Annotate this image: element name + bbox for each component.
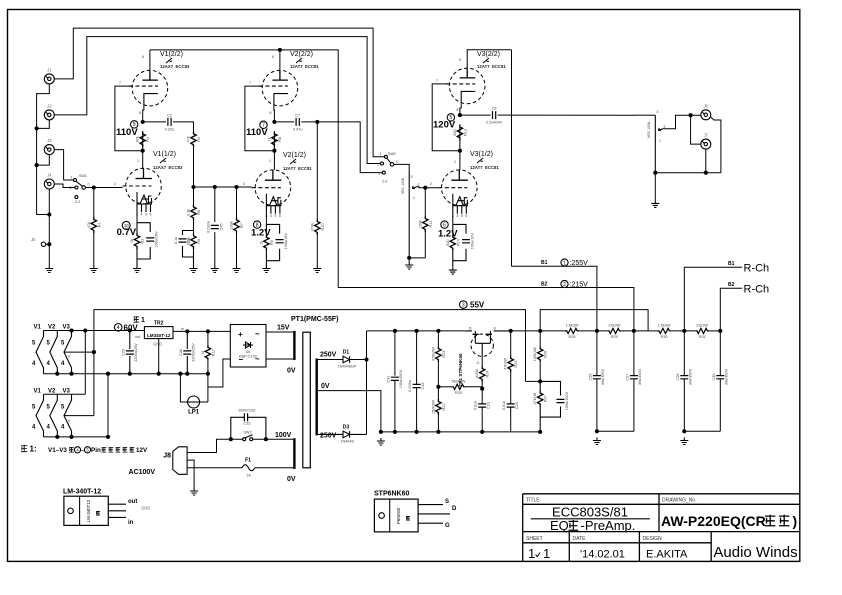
wire V1 upper grid pin7 loop bbox=[115, 86, 143, 151]
junction bus / J4 column bbox=[47, 212, 51, 216]
svg-text:J2: J2 bbox=[47, 103, 52, 108]
svg-text:1: 1 bbox=[563, 260, 566, 266]
svg-text:100k: 100k bbox=[230, 221, 234, 229]
bridge rectifier D4 KBP-C102 bbox=[230, 325, 266, 368]
svg-text:470k2W: 470k2W bbox=[431, 347, 435, 361]
wire V1 cathode to node bbox=[143, 105, 144, 122]
svg-text:E.AKITA: E.AKITA bbox=[646, 549, 688, 561]
svg-text:2200u/25V: 2200u/25V bbox=[192, 343, 196, 362]
capacitor C29b 39u/350V bbox=[712, 368, 729, 385]
filter row right bank bbox=[648, 330, 657, 332]
kanji den bbox=[116, 447, 121, 452]
wire R26 bottom bbox=[539, 362, 541, 381]
input jack J4 bbox=[44, 173, 54, 190]
junction C31 bottom bbox=[393, 430, 397, 434]
wire V3 cathode leg bbox=[452, 214, 454, 225]
svg-text:LM-340T12: LM-340T12 bbox=[86, 499, 91, 522]
circled 4 60V bbox=[114, 324, 122, 332]
svg-text:8: 8 bbox=[139, 111, 141, 115]
svg-text:R8: R8 bbox=[278, 137, 282, 142]
junction C29 bottom bbox=[128, 372, 132, 376]
svg-text:D3: D3 bbox=[343, 425, 350, 431]
output jack J7 bbox=[701, 133, 711, 150]
svg-text:V1: V1 bbox=[34, 325, 42, 331]
junction C7 out bbox=[315, 120, 319, 124]
wire R1 column bbox=[93, 188, 95, 266]
connector J8 bbox=[129, 447, 188, 476]
wire fuse to winding 0V bbox=[255, 467, 295, 469]
svg-text:+: + bbox=[238, 330, 243, 339]
svg-text:C30: C30 bbox=[712, 374, 716, 381]
junction TR2 gnd bbox=[157, 372, 161, 376]
capacitor C30 2200u/25V bbox=[179, 331, 196, 373]
filter row R28-R29 bbox=[579, 330, 607, 332]
wire C45 to ground bbox=[214, 232, 216, 266]
junction C33 top bbox=[415, 329, 419, 333]
wire block1 to block2 bottom bbox=[107, 374, 109, 437]
resistor R2 1k cathode stage1 bbox=[130, 233, 145, 249]
wire R3 to V1 lower plate bbox=[142, 131, 144, 168]
circled 4 note bbox=[74, 447, 80, 453]
wire C7 to junction bbox=[301, 121, 317, 123]
junction filter node B2R bbox=[718, 329, 722, 333]
wire C27 column bbox=[633, 331, 635, 431]
switch SW2 pole 0 bbox=[390, 163, 394, 167]
junction V3 lower plate / pin7 loop bbox=[458, 149, 462, 153]
kanji fu title bbox=[569, 520, 579, 531]
regulator TR2 LM340T-12 box bbox=[135, 321, 184, 347]
junction heater V3 bottom b2 bbox=[69, 435, 73, 439]
wire gate resistor left bbox=[438, 386, 451, 388]
junction filter node B1R bbox=[682, 329, 686, 333]
wire J8 pin3 to fuse bbox=[187, 467, 242, 469]
svg-text:4: 4 bbox=[270, 214, 272, 218]
svg-text:0.033u: 0.033u bbox=[206, 221, 210, 233]
svg-text:in: in bbox=[181, 327, 184, 331]
wire VR1 bottom to ground bbox=[408, 258, 410, 262]
wire V3 plate to rail bbox=[467, 50, 511, 68]
svg-text:C45: C45 bbox=[219, 224, 223, 231]
wire C28 column bbox=[683, 331, 685, 431]
lamp LP1 bbox=[186, 396, 201, 416]
fuse F1 1A bbox=[242, 458, 255, 478]
filter row R29-out bbox=[621, 330, 648, 332]
svg-text:100u/450V: 100u/450V bbox=[399, 369, 403, 388]
svg-text:J7: J7 bbox=[704, 133, 709, 138]
svg-text:250V: 250V bbox=[320, 433, 337, 440]
capacitor C23 0.01u bbox=[474, 401, 491, 411]
svg-text:'14.02.01: '14.02.01 bbox=[580, 549, 625, 561]
wire C26 column bbox=[596, 331, 598, 431]
HV bottom rail bbox=[381, 431, 540, 433]
svg-text:R25: R25 bbox=[514, 361, 518, 368]
wire J2 signal to SW2 contact 2 bbox=[54, 37, 380, 164]
resistor R4 47k bbox=[187, 131, 202, 147]
kanji no 2 bbox=[109, 447, 114, 452]
junction VR2 bottom bbox=[653, 171, 657, 175]
svg-text:R26: R26 bbox=[544, 351, 548, 358]
svg-text:6: 6 bbox=[142, 55, 144, 59]
wire VR1 wiper to V3 grid bbox=[417, 187, 439, 188]
wire gate column bbox=[481, 356, 483, 432]
ground HV center tap bbox=[377, 438, 385, 445]
wire R10 to ground bbox=[316, 235, 318, 266]
svg-text:C7: C7 bbox=[295, 113, 300, 117]
resistor R26 100k1W bbox=[533, 346, 548, 362]
svg-text:100u/16V: 100u/16V bbox=[471, 233, 475, 250]
svg-text:R10: R10 bbox=[321, 224, 325, 231]
wire J2 shield jog bbox=[37, 120, 50, 128]
svg-text:2: 2 bbox=[563, 282, 566, 288]
junction 55V divider node bbox=[538, 379, 542, 383]
svg-text:10: 10 bbox=[124, 223, 129, 228]
wire gate resistor right bbox=[466, 386, 483, 388]
ground filter left pair bbox=[593, 438, 601, 445]
triode V1(1/2) lower bbox=[123, 168, 162, 216]
kanji hyo bbox=[765, 515, 775, 527]
svg-text:C29: C29 bbox=[122, 349, 126, 356]
svg-text:SW2: SW2 bbox=[243, 431, 251, 435]
circled 10 bbox=[122, 221, 130, 229]
junction 0V bottom rail bbox=[379, 430, 383, 434]
svg-text:5: 5 bbox=[279, 214, 281, 218]
svg-text:S: S bbox=[445, 499, 449, 505]
svg-text:2: 2 bbox=[114, 182, 116, 186]
potentiometer VR2 100k bbox=[647, 110, 666, 173]
capacitor C26 39u/350V bbox=[589, 368, 606, 385]
svg-text:VR2 100k: VR2 100k bbox=[647, 122, 651, 139]
svg-text:C33: C33 bbox=[421, 383, 425, 390]
kanji note chu bbox=[21, 445, 27, 452]
svg-text:1: 1 bbox=[659, 139, 661, 143]
svg-text:150k3W: 150k3W bbox=[431, 400, 435, 414]
svg-text:R11: R11 bbox=[429, 221, 433, 228]
wire R10 column bbox=[316, 122, 318, 219]
switch SW2 contact 3 bbox=[382, 171, 385, 174]
svg-text:22k3W: 22k3W bbox=[696, 323, 708, 327]
svg-text:R12: R12 bbox=[211, 349, 215, 356]
junction V2 lower plate / pin7 loop bbox=[272, 149, 276, 153]
wire block1 to block2 top bbox=[84, 331, 86, 395]
wire C31 column bbox=[394, 331, 396, 432]
svg-text:LM340T-12: LM340T-12 bbox=[147, 333, 171, 338]
wire J8 pin2 ground bbox=[187, 460, 194, 488]
svg-text:82k: 82k bbox=[136, 136, 140, 142]
junction V2 plate rail bbox=[278, 48, 282, 52]
svg-text:3: 3 bbox=[657, 110, 659, 114]
svg-text:R13: R13 bbox=[463, 129, 467, 136]
wire bridge AC top to 15V bbox=[266, 331, 294, 333]
junction snubber right bbox=[264, 437, 268, 441]
heater V2 block1 bbox=[50, 331, 58, 374]
svg-text:D4: D4 bbox=[246, 350, 251, 354]
triode V2(2/2) upper bbox=[259, 70, 298, 106]
svg-text:1A: 1A bbox=[246, 474, 251, 478]
junction gate node bbox=[480, 387, 484, 391]
svg-text:0.47u: 0.47u bbox=[293, 127, 303, 131]
svg-text:0.01u: 0.01u bbox=[474, 401, 478, 411]
sheet slash bbox=[536, 553, 541, 558]
svg-text:100V: 100V bbox=[275, 432, 292, 439]
svg-text:Pin: Pin bbox=[91, 447, 101, 454]
wire R6 to R5 bbox=[193, 221, 195, 234]
snubber loop C32 bbox=[231, 417, 266, 439]
svg-text:EQ: EQ bbox=[550, 518, 569, 533]
svg-text:0.01u: 0.01u bbox=[502, 401, 506, 411]
transformer PT1 winding HV bar bbox=[316, 359, 318, 436]
svg-text:F1: F1 bbox=[245, 458, 251, 464]
resistor R3 plate SRPP stage1 bbox=[136, 131, 151, 147]
svg-text:100k1W: 100k1W bbox=[533, 347, 537, 361]
svg-text:8: 8 bbox=[457, 108, 459, 112]
svg-text:SW1: SW1 bbox=[79, 174, 87, 178]
svg-text:1: 1 bbox=[413, 196, 415, 200]
junction heater V3 bottom b1 bbox=[69, 372, 73, 376]
resistor R22 150k3W bbox=[431, 399, 446, 415]
heater V2 block2 bbox=[50, 394, 58, 437]
junction R7 column bbox=[234, 185, 238, 189]
svg-text:15V: 15V bbox=[277, 325, 290, 332]
wire SW1 pole to V1 grid bbox=[86, 187, 123, 189]
svg-text:7: 7 bbox=[436, 79, 438, 83]
wire R26 leads bbox=[539, 331, 541, 346]
transformer PT1 winding 15V bar bbox=[293, 331, 295, 360]
svg-text:4: 4 bbox=[141, 213, 143, 217]
resistor R23 470k2W bbox=[431, 346, 446, 362]
kanji stamp ST1 bbox=[406, 516, 410, 520]
circled 3 bbox=[460, 301, 468, 309]
svg-text:SW2: SW2 bbox=[388, 152, 396, 156]
ground J8 bbox=[190, 488, 198, 495]
svg-text:R7: R7 bbox=[240, 223, 244, 228]
svg-text:2: 2 bbox=[430, 182, 432, 186]
section mark a V1 bbox=[160, 158, 166, 163]
svg-text:1N4948GP: 1N4948GP bbox=[338, 365, 357, 369]
ground R10 bbox=[313, 266, 321, 273]
svg-text:39u/350V: 39u/350V bbox=[601, 368, 605, 385]
svg-text:TR2: TR2 bbox=[154, 321, 164, 327]
cathode RC loop stage2 bbox=[266, 224, 279, 265]
filter row R30-R31 bbox=[671, 330, 695, 332]
svg-text:9: 9 bbox=[274, 214, 276, 218]
capacitor C27 39u/350V bbox=[626, 368, 643, 385]
junction J3 shield / bus bbox=[35, 163, 39, 167]
svg-text:5: 5 bbox=[450, 115, 453, 121]
kanji ha bbox=[130, 447, 135, 452]
junction R12 top bbox=[206, 329, 210, 333]
svg-text:1.5k3W: 1.5k3W bbox=[658, 323, 671, 327]
svg-text:1: 1 bbox=[71, 176, 73, 180]
svg-text::255V: :255V bbox=[570, 260, 589, 267]
svg-text::215V: :215V bbox=[570, 282, 589, 289]
svg-text:D1: D1 bbox=[343, 350, 350, 356]
svg-text:2-3: 2-3 bbox=[382, 180, 387, 184]
svg-text:22k3W: 22k3W bbox=[608, 323, 620, 327]
ground cathode stage3 bbox=[449, 267, 457, 274]
resistor R13 SRPP stage3 bbox=[453, 125, 468, 141]
svg-text:DATE: DATE bbox=[573, 536, 587, 542]
wire divider column bbox=[437, 331, 439, 432]
switch SW1 blade bbox=[76, 181, 83, 186]
capacitor C1 0.1u bbox=[174, 237, 191, 244]
svg-text:R27: R27 bbox=[544, 395, 548, 402]
svg-text:R23: R23 bbox=[442, 351, 446, 358]
resistor R29 22k3W bbox=[607, 323, 621, 339]
ground R7 bbox=[233, 266, 241, 273]
svg-text:47k2W: 47k2W bbox=[504, 358, 508, 370]
svg-text:V3: V3 bbox=[63, 325, 71, 331]
svg-text:0: 0 bbox=[396, 160, 398, 164]
svg-text:1: 1 bbox=[380, 152, 382, 156]
wire C33 column bbox=[416, 331, 418, 432]
svg-text:R5: R5 bbox=[197, 239, 201, 244]
svg-text:J4: J4 bbox=[47, 173, 52, 178]
svg-text:3: 3 bbox=[462, 302, 465, 308]
svg-text:GND: GND bbox=[141, 506, 150, 511]
svg-text:AC100V: AC100V bbox=[129, 469, 156, 476]
wire R7 column bbox=[236, 187, 238, 218]
svg-text:1: 1 bbox=[528, 546, 535, 561]
wire V3 upper grid pin7 loop bbox=[432, 84, 460, 151]
capacitor C29 2200u/25V bbox=[122, 331, 139, 374]
svg-text:9: 9 bbox=[68, 355, 70, 359]
svg-text:600V/13Ω: 600V/13Ω bbox=[239, 409, 256, 413]
source rail to filter bbox=[511, 330, 565, 332]
svg-text:R31: R31 bbox=[699, 335, 706, 339]
capacitor C3 100u/16V stage1 bbox=[146, 231, 159, 248]
svg-text:DESIGN: DESIGN bbox=[643, 536, 663, 542]
svg-text:B1: B1 bbox=[728, 261, 735, 267]
svg-text:1: 1 bbox=[137, 159, 139, 163]
wire R11 bottom bbox=[424, 232, 426, 258]
svg-text:R22: R22 bbox=[442, 404, 446, 411]
section mark a V3 bbox=[477, 158, 483, 163]
wire R7 to ground bbox=[236, 234, 238, 266]
svg-text:R28: R28 bbox=[569, 335, 576, 339]
junction VR1 bottom bbox=[407, 256, 411, 260]
junction R22 bottom bbox=[436, 430, 440, 434]
svg-text:15: 15 bbox=[201, 351, 205, 355]
svg-text:B2: B2 bbox=[728, 282, 735, 288]
mosfet TR1 STP6NK60 bbox=[458, 327, 511, 387]
junction block1 top rail bbox=[83, 328, 87, 332]
svg-text:6: 6 bbox=[459, 58, 461, 62]
wire V1 cathode leg bbox=[136, 212, 138, 223]
svg-text:100u/16V: 100u/16V bbox=[155, 231, 159, 248]
svg-text:R14: R14 bbox=[456, 239, 460, 246]
wire switch to winding 100V bbox=[253, 438, 295, 440]
input jack J1 bbox=[44, 67, 54, 84]
svg-text:R-Ch: R-Ch bbox=[744, 284, 770, 296]
wire TR2 in rail bbox=[173, 330, 230, 332]
heater V3 block2 bbox=[64, 394, 72, 437]
diode D3 1N4948 bbox=[317, 425, 367, 444]
kanji kan bbox=[102, 447, 107, 452]
wire SW2 pole to VR1 bbox=[394, 164, 409, 171]
svg-text:8: 8 bbox=[270, 111, 272, 115]
svg-text:47k: 47k bbox=[187, 136, 191, 142]
transformer PT1 core bbox=[303, 332, 311, 468]
heater block2 top rail bbox=[44, 393, 86, 395]
resistor R25 47k2W bbox=[504, 356, 519, 372]
svg-text:GND: GND bbox=[153, 342, 162, 347]
section mark a V2 bbox=[290, 159, 296, 164]
svg-text:4: 4 bbox=[117, 325, 120, 331]
wire C2 to EQ column bbox=[173, 122, 194, 131]
junction C29 top bbox=[128, 328, 132, 332]
wire node to C7 bbox=[274, 121, 294, 123]
wire 9-tap down bbox=[93, 352, 95, 416]
svg-text:DRAWING_No.: DRAWING_No. bbox=[662, 498, 697, 504]
svg-text:KBP-C102: KBP-C102 bbox=[239, 355, 257, 359]
circled 2 215V label bbox=[561, 280, 588, 288]
triode V3(1/2) lower bbox=[438, 170, 477, 218]
capacitor C7 0.47u bbox=[293, 113, 303, 131]
resistor R11 100k bbox=[418, 216, 433, 232]
junction heater V3 top b1 bbox=[69, 328, 73, 332]
svg-text:27k1W: 27k1W bbox=[533, 392, 537, 404]
title underline bbox=[531, 518, 650, 520]
ground C45 bbox=[211, 266, 219, 273]
wire R12 column and LP1 drop bbox=[207, 331, 209, 402]
junction filter node B1 bbox=[595, 329, 599, 333]
kanji atsu bbox=[123, 447, 128, 452]
cathode RC loop stage1 bbox=[137, 223, 150, 266]
svg-text:R-Ch: R-Ch bbox=[744, 263, 770, 275]
junction J2 shield / bus bbox=[35, 126, 39, 130]
section mark b V3 bbox=[483, 58, 489, 63]
power switch SW3 bbox=[243, 431, 253, 441]
svg-text:6: 6 bbox=[272, 55, 274, 59]
section mark b V2 bbox=[296, 58, 302, 63]
circled 5 bbox=[447, 114, 454, 121]
junction R12 bottom rail bbox=[206, 372, 210, 376]
junction V1 lower plate / pin7 loop bbox=[141, 149, 145, 153]
junction LP1 left bbox=[178, 372, 182, 376]
capacitor C4 C5 0.033u bbox=[206, 221, 223, 233]
kanji jun bbox=[779, 515, 789, 527]
junction grid node R1 bbox=[92, 185, 96, 189]
svg-text:2200u/25V: 2200u/25V bbox=[134, 343, 138, 362]
resistor R28 1.5k3W bbox=[565, 323, 579, 339]
ground R1 bbox=[90, 266, 98, 273]
svg-text:PT1(PMC-55F): PT1(PMC-55F) bbox=[291, 316, 338, 323]
svg-text:C32: C32 bbox=[244, 422, 251, 426]
ground filter right pair bbox=[680, 438, 688, 445]
plate rail V1 V2 to B2 drop bbox=[150, 50, 338, 288]
svg-text:V1(2/2): V1(2/2) bbox=[160, 51, 183, 58]
ground VR1 bbox=[405, 262, 413, 269]
svg-text:47k: 47k bbox=[87, 222, 91, 228]
node V1 110V bbox=[141, 120, 145, 124]
svg-text:V1–V3: V1–V3 bbox=[48, 447, 67, 454]
wire B1 line bbox=[512, 266, 597, 331]
circled 1 255V label bbox=[561, 259, 588, 267]
wire rectified node bbox=[366, 331, 368, 435]
wire C26 C27 bottom bbox=[597, 430, 634, 432]
svg-text:C31: C31 bbox=[387, 376, 391, 383]
svg-text:12AT7 ECC81: 12AT7 ECC81 bbox=[290, 64, 319, 69]
triode V1(2/2) upper bbox=[129, 70, 168, 106]
capacitor C32 snubber bbox=[244, 413, 247, 421]
svg-text:3: 3 bbox=[378, 172, 380, 176]
wire R25 C24 column bbox=[510, 331, 512, 432]
heater block2 bottom rail bbox=[44, 436, 109, 438]
svg-text:100k: 100k bbox=[418, 220, 422, 228]
junction 55V / 9tap bbox=[92, 350, 96, 354]
switch SW2 contact 2 bbox=[381, 162, 384, 165]
heater V1 block1 bbox=[36, 331, 44, 374]
